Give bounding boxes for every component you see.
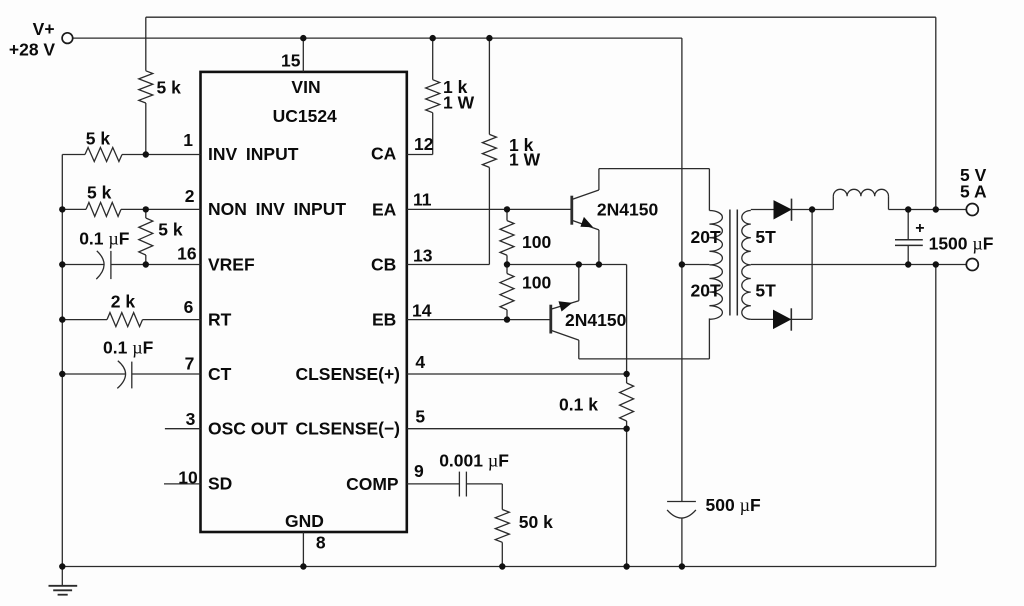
svg-text:NON INV INPUT: NON INV INPUT [208, 199, 346, 219]
svg-text:5: 5 [415, 407, 425, 427]
svg-text:0.1 µF: 0.1 µF [103, 337, 154, 357]
svg-text:10: 10 [178, 468, 198, 488]
svg-text:OSC OUT: OSC OUT [208, 419, 288, 439]
svg-text:2N4150: 2N4150 [597, 200, 659, 220]
svg-text:1 W: 1 W [509, 149, 541, 169]
svg-text:5T: 5T [755, 227, 776, 247]
svg-text:5 A: 5 A [960, 181, 987, 201]
svg-text:SD: SD [208, 474, 232, 494]
svg-text:50 k: 50 k [519, 512, 553, 532]
svg-text:1 W: 1 W [443, 93, 475, 113]
svg-text:CA: CA [371, 144, 397, 164]
svg-text:1: 1 [183, 130, 193, 150]
svg-text:0.1 k: 0.1 k [559, 395, 598, 415]
svg-text:100: 100 [522, 232, 551, 252]
svg-text:5 k: 5 k [157, 77, 182, 97]
svg-text:COMP: COMP [346, 474, 399, 494]
svg-text:14: 14 [412, 301, 432, 321]
svg-text:9: 9 [414, 461, 424, 481]
svg-text:VREF: VREF [208, 254, 255, 274]
svg-text:20T: 20T [691, 227, 721, 247]
svg-text:4: 4 [415, 352, 425, 372]
svg-text:CLSENSE(−): CLSENSE(−) [295, 419, 400, 439]
svg-text:VIN: VIN [291, 77, 320, 97]
svg-text:5 k: 5 k [87, 183, 112, 203]
svg-text:1500 µF: 1500 µF [929, 233, 994, 253]
svg-text:+: + [915, 220, 924, 237]
svg-text:13: 13 [413, 246, 433, 266]
svg-text:INV INPUT: INV INPUT [208, 144, 299, 164]
svg-text:5T: 5T [755, 281, 776, 301]
svg-text:0.001 µF: 0.001 µF [439, 451, 509, 471]
svg-text:500 µF: 500 µF [706, 495, 761, 515]
svg-text:RT: RT [208, 309, 232, 329]
svg-text:CLSENSE(+): CLSENSE(+) [295, 364, 400, 384]
svg-text:UC1524: UC1524 [273, 106, 337, 126]
svg-text:GND: GND [285, 511, 324, 531]
svg-text:+28 V: +28 V [9, 39, 56, 59]
svg-text:0.1 µF: 0.1 µF [79, 229, 130, 249]
svg-text:100: 100 [522, 273, 551, 293]
svg-text:CT: CT [208, 364, 232, 384]
svg-text:20T: 20T [691, 281, 721, 301]
svg-text:15: 15 [281, 51, 301, 71]
svg-text:7: 7 [185, 354, 195, 374]
svg-text:EB: EB [372, 310, 396, 330]
svg-text:2 k: 2 k [111, 292, 136, 312]
svg-text:V+: V+ [33, 19, 55, 39]
svg-text:2N4150: 2N4150 [565, 310, 627, 330]
svg-text:16: 16 [177, 243, 197, 263]
svg-text:5 k: 5 k [158, 220, 183, 240]
svg-text:2: 2 [185, 186, 195, 206]
svg-text:5 k: 5 k [86, 129, 111, 149]
svg-text:11: 11 [413, 190, 432, 210]
svg-text:3: 3 [186, 409, 196, 429]
svg-text:8: 8 [316, 533, 326, 553]
svg-text:EA: EA [372, 200, 397, 220]
svg-text:CB: CB [371, 255, 396, 275]
svg-text:12: 12 [414, 134, 434, 154]
svg-text:6: 6 [184, 297, 194, 317]
